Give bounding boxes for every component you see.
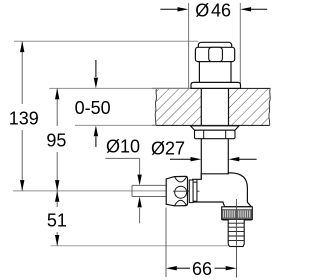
bonnet body above wall xyxy=(199,62,231,83)
backnut hex facet line right xyxy=(225,130,227,139)
handle axis line (95/51 reference) xyxy=(13,190,200,192)
right hatched block with freehand break edge xyxy=(229,88,271,125)
backnut hex xyxy=(195,130,236,139)
svg-text:66: 66 xyxy=(192,259,212,279)
svg-text:Ø10: Ø10 xyxy=(106,136,140,156)
svg-text:0-50: 0-50 xyxy=(75,98,111,118)
hose end line (51 reference) xyxy=(51,245,237,247)
knob top arc xyxy=(175,177,187,182)
spindle stem xyxy=(132,185,166,196)
95 dimension line + arrows xyxy=(55,88,59,190)
Ø46 right extension line xyxy=(239,3,241,88)
51 dimension line + arrows xyxy=(55,191,59,246)
svg-text:46: 46 xyxy=(211,1,231,21)
extension line wall top (0-50 / 95 reference) xyxy=(49,87,191,89)
wall top line xyxy=(152,87,270,89)
svg-text:139: 139 xyxy=(9,108,39,128)
svg-text:95: 95 xyxy=(46,130,66,150)
66 right extension line (spout axis) xyxy=(236,202,238,278)
knob bottom arc xyxy=(175,200,187,205)
hex nut centre facet xyxy=(209,47,223,61)
handle knob xyxy=(166,176,187,205)
wall section (hatched masonry) xyxy=(152,88,270,125)
66 dimension arrows xyxy=(166,266,237,270)
left hatched block with freehand break edge xyxy=(155,88,201,125)
riser pipe below backnut xyxy=(201,139,228,180)
supply pipe through wall xyxy=(201,88,228,125)
backnut washer under wall xyxy=(191,126,240,130)
knob centre axis dash xyxy=(173,190,200,192)
Ø46 left extension line xyxy=(188,3,190,88)
body face line xyxy=(196,179,198,202)
svg-text:Ø: Ø xyxy=(195,1,209,21)
headwork hex nut xyxy=(195,47,234,61)
66 left extension line xyxy=(165,208,167,278)
wall flange (escutcheon) xyxy=(191,82,241,88)
Ø46 dimension arrows xyxy=(160,7,267,11)
Ø27 dimension arrows xyxy=(170,157,257,161)
body front face ring xyxy=(193,182,197,201)
Ø10 leader line + arrows xyxy=(105,158,141,223)
139 dimension line + arrows xyxy=(20,41,24,191)
backnut hex facet line left xyxy=(203,130,205,139)
headwork cap (top rounded cap) xyxy=(198,42,231,54)
valve body block with elbow outlet xyxy=(193,173,252,207)
hose coupling nut xyxy=(222,207,253,220)
extension line from cap top (139 reference) xyxy=(14,40,199,42)
knob centre circle xyxy=(175,186,187,198)
extension line wall bottom (0-50 reference) xyxy=(75,124,156,126)
0-50 dimension arrows xyxy=(94,60,98,147)
spout centre axis over fittings xyxy=(235,199,237,246)
svg-text:Ø27: Ø27 xyxy=(151,139,185,159)
svg-text:51: 51 xyxy=(47,211,67,231)
hose nipple (barbed) xyxy=(228,220,244,247)
wall bottom line xyxy=(152,124,270,126)
knob collar xyxy=(189,180,193,203)
